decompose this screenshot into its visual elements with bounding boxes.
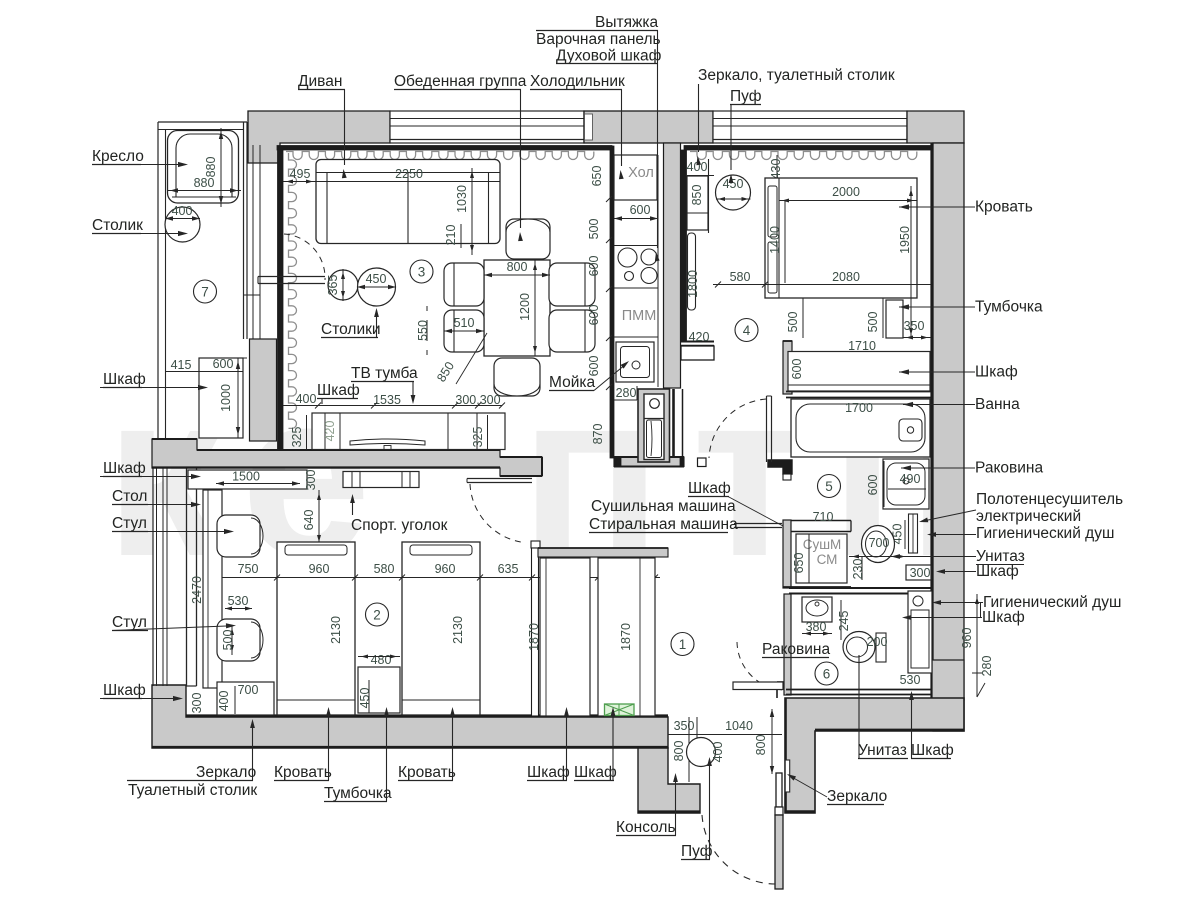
svg-text:710: 710: [813, 510, 834, 524]
svg-text:Шкаф: Шкаф: [976, 563, 1019, 580]
svg-text:365: 365: [326, 275, 340, 296]
svg-text:2000: 2000: [832, 185, 860, 199]
svg-text:2080: 2080: [832, 270, 860, 284]
wall: top middle exterior block: [584, 111, 713, 143]
dim 500v chair2: [221, 625, 235, 655]
label Ванна: [903, 396, 1020, 413]
dim 880 armchair depth: [204, 128, 223, 207]
dim 420 niche: [687, 330, 712, 344]
dim 325 left: [290, 415, 307, 450]
dim 300v: [304, 470, 318, 491]
svg-text:650: 650: [590, 166, 604, 187]
wall: right exterior wall: [932, 143, 965, 731]
svg-text:490: 490: [900, 472, 921, 486]
cabinet 300 bathroom5: [906, 565, 931, 580]
round table 400 in balcony: [165, 204, 200, 242]
wall: room2 right wall + cap: [531, 541, 540, 716]
label Шкаф (bottom right): [909, 691, 954, 759]
wall: kitchen left: [610, 146, 614, 458]
dressing table room2: [217, 682, 274, 715]
nightstand between beds: [358, 667, 400, 713]
svg-text:Зеркало: Зеркало: [196, 764, 256, 781]
wall: balcony outer glazing (left+top): [158, 122, 247, 439]
svg-text:Вытяжка: Вытяжка: [595, 14, 658, 31]
svg-text:640: 640: [302, 510, 316, 531]
label Шкаф (bottom A): [527, 707, 570, 781]
svg-text:Стол: Стол: [112, 488, 147, 505]
wall: kitchen-hall wall lower lines: [674, 389, 683, 457]
svg-text:200: 200: [867, 635, 888, 649]
svg-text:1800: 1800: [686, 270, 700, 298]
svg-text:4: 4: [743, 323, 751, 338]
mirror on lobby wall: [785, 760, 790, 792]
svg-text:500: 500: [866, 312, 880, 333]
window W2 (bedroom 4, top): [713, 111, 907, 143]
svg-text:500: 500: [221, 630, 235, 651]
dim 450 text+arrows: [357, 272, 396, 289]
svg-text:Пуф: Пуф: [730, 88, 762, 105]
svg-text:415: 415: [171, 358, 192, 372]
dim 1870v wardrobeB: [619, 623, 633, 651]
dim 1030 sofa depth: [455, 168, 474, 255]
wardrobe 1500x300 room2: [188, 470, 307, 489]
wall: balcony / room2 partition: [187, 466, 197, 686]
room number 7: [194, 280, 217, 303]
svg-text:530: 530: [900, 673, 921, 687]
wall: bottom exterior band: [152, 685, 668, 748]
label Пуф (top): [729, 88, 762, 183]
svg-text:580: 580: [374, 562, 395, 576]
label Варочная панель: [536, 31, 661, 48]
svg-text:210: 210: [444, 225, 458, 246]
dim 800 table width: [484, 260, 550, 277]
electric panel (green): [605, 704, 635, 716]
armchair in balcony: [168, 131, 239, 204]
dim 1700 bath: [796, 401, 925, 417]
balcony cupboard 600x1000: [199, 358, 243, 438]
svg-text:Раковина: Раковина: [975, 460, 1043, 477]
svg-text:Сушильная машина: Сушильная машина: [591, 498, 736, 515]
bed1 room2: [277, 542, 355, 715]
balcony door swing arc: [284, 234, 325, 280]
label Туалетный столик: [128, 782, 257, 799]
svg-text:450: 450: [723, 177, 744, 191]
svg-text:600: 600: [790, 359, 804, 380]
dim 480 nightstand2: [358, 653, 400, 713]
svg-text:800: 800: [672, 741, 686, 762]
svg-text:СМ: СМ: [817, 552, 838, 567]
wall: bathroom5 / bedroom4-wardrobe separation: [786, 392, 931, 398]
label Духовой шкаф: [556, 48, 662, 65]
svg-text:500: 500: [587, 219, 601, 240]
dining chair left1: [444, 263, 484, 306]
svg-text:300: 300: [190, 693, 204, 714]
dim 1200 table height: [518, 260, 537, 356]
svg-text:1: 1: [679, 637, 687, 652]
svg-text:Столики: Столики: [321, 321, 381, 338]
dim 495 sofa offset: [283, 167, 316, 184]
dim 380 sink6: [802, 620, 832, 636]
kitchen left dim chain: [587, 146, 612, 458]
svg-text:960: 960: [960, 628, 974, 649]
svg-text:Кровать: Кровать: [398, 764, 456, 781]
label Шкаф (balcony): [100, 371, 208, 390]
round tables 365/450 (Столики): [326, 268, 396, 306]
svg-text:2250: 2250: [395, 167, 423, 181]
label Шкаф (TV wall): [317, 382, 360, 404]
svg-text:3: 3: [418, 265, 426, 280]
dim 960v outside: [960, 594, 982, 697]
dim 300v dressing2: [190, 690, 207, 714]
dim 700 toilet5: [849, 536, 908, 559]
dim 700 dressing2: [230, 683, 274, 697]
bathroom5 sink: [883, 459, 929, 509]
svg-text:600: 600: [866, 475, 880, 496]
dim 350: [903, 319, 931, 340]
label Мойка: [549, 361, 629, 391]
label Полотенцесушитель электрический: [919, 491, 1123, 525]
dim 365 arrows: [341, 269, 345, 301]
svg-text:ТВ тумба: ТВ тумба: [351, 365, 418, 382]
svg-text:Обеденная группа: Обеденная группа: [394, 73, 527, 90]
svg-text:1950: 1950: [898, 226, 912, 254]
svg-text:Шкаф: Шкаф: [527, 764, 570, 781]
wall: bottom-right L-shaped exterior wall: [785, 698, 964, 813]
entrance door swing arc: [702, 815, 776, 884]
wall: room6 bottom: [786, 690, 932, 695]
svg-text:480: 480: [371, 653, 392, 667]
label Пуф (bottom): [681, 757, 713, 860]
room number 5: [818, 475, 841, 498]
dim 580 bed: [713, 270, 768, 288]
wall: living/bedroom2 partition band: [152, 439, 542, 476]
label Унитаз (bath5): [891, 548, 1025, 565]
wall: bedroom4 bottom-left piece with niche: [681, 342, 714, 361]
svg-text:325: 325: [290, 427, 304, 448]
svg-text:1000: 1000: [219, 384, 233, 412]
svg-text:1400: 1400: [768, 226, 782, 254]
dim 710 closet: [791, 510, 851, 526]
dim 450v nightstand2: [358, 680, 372, 713]
insulation zigzag: bedroom4 top: [690, 152, 917, 160]
svg-text:495: 495: [290, 167, 311, 181]
label Столик: [92, 217, 188, 236]
svg-text:700: 700: [238, 683, 259, 697]
wall: bedroom4 left: [681, 150, 687, 341]
svg-text:Шкаф: Шкаф: [982, 609, 1025, 626]
dim 2470v desk: [190, 490, 204, 688]
svg-text:800: 800: [754, 735, 768, 756]
dim 350 entrance: [668, 717, 697, 740]
svg-text:Диван: Диван: [298, 73, 342, 90]
svg-text:СушМ: СушМ: [803, 537, 842, 552]
dim 300,300 tv: [452, 393, 505, 409]
wall: laundry closet bottom: [783, 586, 851, 588]
bed2 room2: [402, 542, 480, 715]
wall: entrance leg below bottom band: [638, 748, 700, 813]
wall: gray pier between balcony and living room: [250, 339, 277, 441]
svg-text:Стул: Стул: [112, 515, 147, 532]
label Кресло: [92, 148, 188, 167]
dim 325 right: [471, 415, 488, 450]
dim 450v towel: [891, 520, 906, 549]
dining table 800x1200: [484, 260, 550, 356]
cooktop burners: [618, 248, 657, 284]
dim 1500: [216, 470, 300, 486]
room6 sink: [802, 597, 832, 622]
room number 2: [366, 603, 389, 626]
dim 850 diagonal: [434, 333, 487, 384]
svg-text:800: 800: [507, 260, 528, 274]
dim 550 chairs: [416, 306, 430, 355]
svg-text:1030: 1030: [455, 185, 469, 213]
svg-text:ПММ: ПММ: [622, 308, 657, 324]
TV stand (ТВ тумба): [312, 413, 505, 450]
svg-text:Стиральная машина: Стиральная машина: [589, 516, 738, 533]
label Стул (2): [95, 614, 236, 631]
svg-text:1870: 1870: [619, 623, 633, 651]
svg-text:1870: 1870: [527, 623, 541, 651]
wall: balcony lower-left glazing strip: [153, 466, 167, 686]
svg-text:Тумбочка: Тумбочка: [324, 785, 392, 802]
svg-text:430: 430: [769, 159, 783, 180]
svg-text:530: 530: [228, 594, 249, 608]
dim 2130v bed2: [451, 545, 469, 712]
fridge (Хол): [614, 155, 657, 200]
wardrobe B room2: [598, 558, 655, 716]
svg-text:2: 2: [373, 608, 381, 623]
svg-text:Шкаф: Шкаф: [103, 371, 146, 388]
svg-text:300: 300: [304, 470, 318, 491]
svg-text:600: 600: [630, 203, 651, 217]
dim 530 chair2: [225, 594, 252, 611]
wall: living room top (black band): [277, 146, 612, 151]
wall: kitchen bottom band: [614, 457, 706, 467]
pouf 450 bedroom4: [716, 175, 751, 210]
svg-text:Спорт. уголок: Спорт. уголок: [351, 517, 448, 534]
svg-text:5: 5: [825, 479, 833, 494]
svg-text:Духовой шкаф: Духовой шкаф: [556, 48, 662, 65]
laundry closet inner (СушМ/СМ): [796, 534, 847, 583]
wall: bathroom5 left wall lower corner: [768, 460, 792, 480]
wall: room2 wardrobe-row top band: [538, 548, 668, 557]
svg-text:Столик: Столик: [92, 217, 143, 234]
dim 1400v bed: [768, 200, 785, 283]
dim 280 sink: [614, 386, 637, 400]
desk room2 (Стол): [203, 490, 222, 688]
dim 200 toilet6: [867, 635, 888, 649]
svg-text:650: 650: [792, 553, 806, 574]
entrance pouf 400: [687, 738, 726, 767]
svg-text:870: 870: [591, 424, 605, 445]
svg-text:Унитаз: Унитаз: [858, 742, 907, 759]
svg-text:Шкаф: Шкаф: [317, 382, 360, 399]
kitchen sink (Мойка): [616, 342, 654, 382]
svg-text:Мойка: Мойка: [549, 374, 595, 391]
dim 245v: [837, 600, 851, 640]
dining chair right1: [549, 263, 595, 306]
svg-text:600: 600: [213, 357, 234, 371]
kitchen tall unit (laundry column): [638, 389, 670, 462]
bathroom5 door leaf: [767, 396, 772, 462]
dim 490 sink5: [888, 472, 926, 489]
chair2 room2: [217, 619, 263, 661]
towel rail: [909, 514, 918, 553]
svg-text:350: 350: [674, 719, 695, 733]
wall: laundry closet left strip: [783, 520, 791, 588]
dim 1870v wardrobeA: [527, 623, 541, 651]
svg-text:электрический: электрический: [976, 508, 1081, 525]
dim 640v: [302, 490, 321, 545]
dining chair top: [506, 219, 550, 259]
svg-text:550: 550: [416, 320, 430, 341]
svg-text:Ванна: Ванна: [975, 396, 1020, 413]
wardrobe A room2: [540, 558, 590, 716]
dim 510 chair width: [444, 316, 484, 333]
svg-text:450: 450: [358, 688, 372, 709]
svg-text:400: 400: [296, 392, 317, 406]
svg-text:Шкаф: Шкаф: [103, 682, 146, 699]
svg-text:300: 300: [910, 566, 931, 580]
label Кровать (bottom2): [398, 707, 456, 781]
svg-text:Консоль: Консоль: [616, 819, 676, 836]
label Унитаз (bottom): [858, 655, 908, 759]
wall: top-right corner block: [907, 111, 964, 143]
insulation zigzag: living room left wall: [289, 153, 297, 428]
svg-text:700: 700: [869, 536, 890, 550]
svg-text:280: 280: [616, 386, 637, 400]
wall: kitchen right gray strip: [664, 143, 681, 388]
svg-text:960: 960: [309, 562, 330, 576]
svg-text:6: 6: [823, 667, 831, 682]
svg-text:Шкаф: Шкаф: [975, 364, 1018, 381]
window W1 (living room, top): [390, 111, 584, 143]
dim 600v sink5: [866, 461, 884, 507]
svg-text:1700: 1700: [845, 401, 873, 415]
room6 door swing arc: [737, 642, 784, 690]
wall: bottom-right step block: [932, 660, 964, 700]
svg-text:Раковина: Раковина: [762, 641, 830, 658]
room number 3: [410, 260, 433, 283]
svg-text:325: 325: [471, 427, 485, 448]
label Стол: [112, 488, 201, 507]
balcony door threshold: [258, 277, 325, 284]
label Гигиенический душ (bath5): [927, 525, 1114, 542]
svg-text:450: 450: [366, 272, 387, 286]
dining chair right2: [549, 310, 595, 352]
dim 1710: [791, 339, 930, 353]
svg-text:Шкаф: Шкаф: [688, 480, 731, 497]
dim 280v outside: [977, 656, 994, 697]
svg-text:400: 400: [711, 742, 725, 763]
label Спорт. уголок: [350, 494, 448, 534]
wall: bathroom5 / room6 separation: [789, 588, 932, 594]
dim 500v right: [866, 298, 883, 338]
sofa (Диван): [316, 160, 500, 244]
wall: laundry closet top: [791, 521, 851, 532]
svg-text:2130: 2130: [451, 616, 465, 644]
svg-text:Зеркало: Зеркало: [827, 788, 887, 805]
dim 1535 tv: [315, 393, 455, 409]
svg-text:Варочная панель: Варочная панель: [536, 31, 661, 48]
label Шкаф (room2 top): [100, 460, 201, 479]
svg-text:1500: 1500: [232, 470, 260, 484]
svg-text:1040: 1040: [725, 719, 753, 733]
label Зеркало, туалетный столик: [696, 67, 894, 165]
laundry door leaf: [734, 524, 782, 528]
svg-text:Зеркало, туалетный столик: Зеркало, туалетный столик: [698, 67, 895, 84]
svg-text:Холодильник: Холодильник: [530, 73, 625, 90]
svg-text:Гигиенический душ: Гигиенический душ: [976, 525, 1114, 542]
svg-text:Кровать: Кровать: [274, 764, 332, 781]
label Консоль: [616, 773, 678, 836]
svg-text:Полотенцесушитель: Полотенцесушитель: [976, 491, 1123, 508]
svg-text:Кресло: Кресло: [92, 148, 144, 165]
room2 door leaf: [467, 479, 532, 483]
wall: living room left: [278, 150, 284, 450]
svg-text:420: 420: [323, 421, 337, 442]
label Столики: [321, 308, 381, 338]
label Шкаф (bedroom4): [899, 364, 1018, 381]
wardrobe bedroom4 (1710): [788, 352, 930, 392]
dim 1800v: [686, 233, 707, 310]
label Стиральная машина: [589, 497, 783, 534]
sport corner bench: [343, 472, 419, 488]
toilet bathroom5: [862, 526, 895, 563]
svg-text:Шкаф: Шкаф: [103, 460, 146, 477]
dim 415 balcony: [166, 358, 199, 372]
leader hood/cooktop: [655, 31, 660, 262]
mirror tall bedroom4: [688, 233, 696, 310]
wall: top-left exterior block: [248, 111, 390, 163]
svg-text:Стул: Стул: [112, 614, 147, 631]
dim 2250 sofa length: [316, 167, 500, 185]
label Шкаф (bottom B): [574, 707, 617, 781]
label Диван: [298, 73, 347, 178]
svg-text:850: 850: [690, 185, 704, 206]
svg-text:400: 400: [217, 691, 231, 712]
dining chair bottom: [494, 358, 540, 396]
label Обеденная группа: [394, 73, 527, 241]
kitchen counter front line: [657, 155, 659, 387]
kitchen counter division lines: [614, 246, 658, 338]
dim 400 tv: [283, 392, 318, 406]
dim 1040 entrance: [697, 719, 782, 735]
dim 650v closet: [792, 534, 809, 583]
label Вытяжка: [536, 14, 658, 31]
label Тумбочка (right): [899, 299, 1043, 316]
svg-text:Пуф: Пуф: [681, 843, 713, 860]
svg-text:1710: 1710: [848, 339, 876, 353]
wall: bedroom4 top (black band): [684, 146, 933, 151]
label Кровать (bottom1): [274, 707, 332, 781]
dim 430v: [769, 155, 783, 185]
dressing table bedroom4: [687, 176, 708, 230]
dining chair left2: [444, 310, 484, 352]
label Раковина (bath5): [901, 460, 1043, 477]
svg-text:280: 280: [980, 656, 994, 677]
svg-text:635: 635: [498, 562, 519, 576]
svg-text:510: 510: [454, 316, 475, 330]
svg-text:7: 7: [201, 285, 209, 300]
svg-text:Шкаф: Шкаф: [911, 742, 954, 759]
bathtub (Ванна): [791, 399, 930, 457]
room number 1: [671, 633, 694, 656]
label Раковина (room6): [762, 627, 830, 658]
svg-text:350: 350: [904, 319, 925, 333]
svg-text:Кровать: Кровать: [975, 199, 1033, 216]
dim 500v left: [786, 298, 803, 338]
